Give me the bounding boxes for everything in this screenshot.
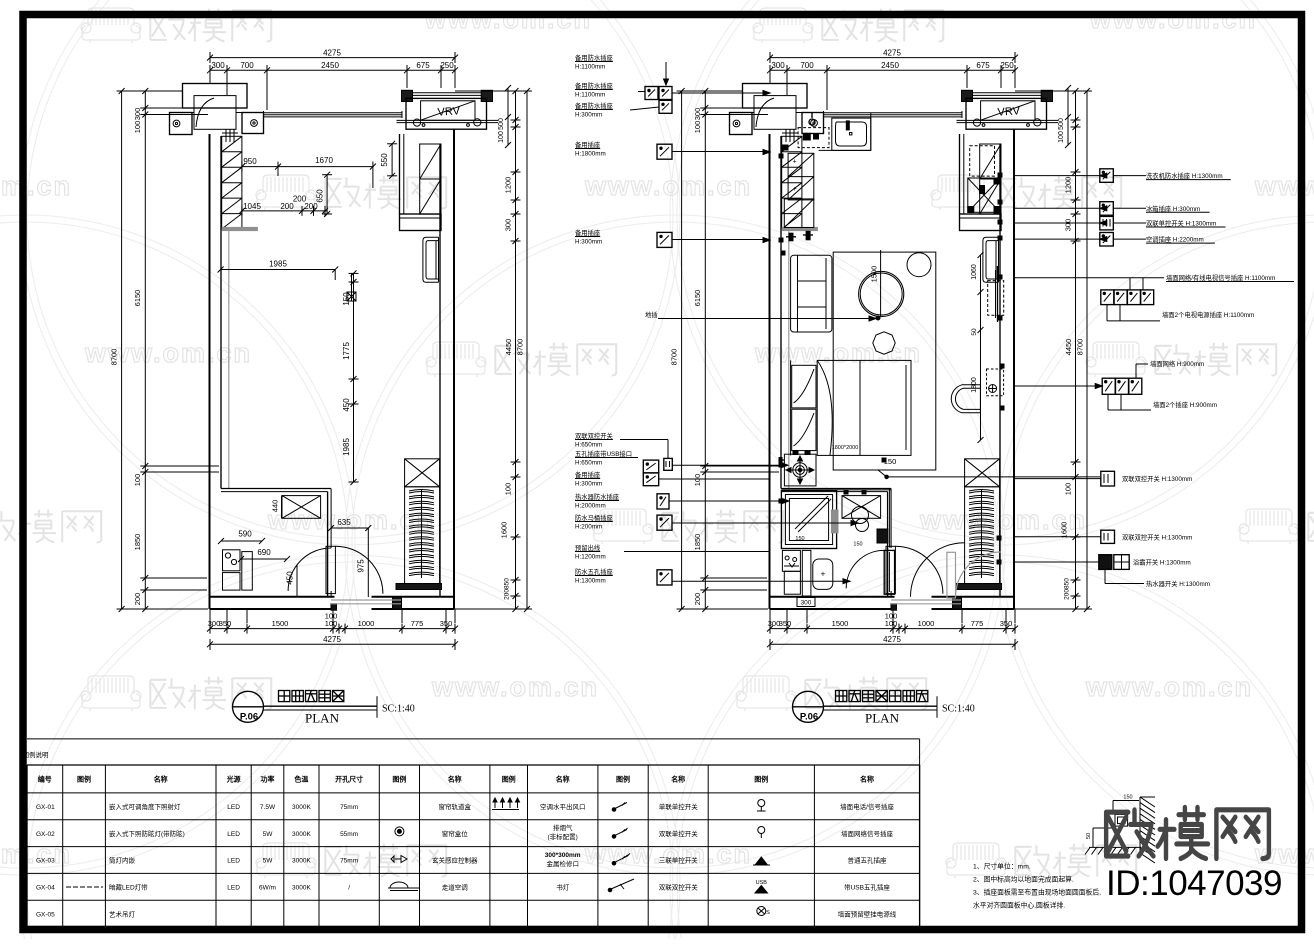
svg-text:+: + bbox=[793, 159, 797, 166]
svg-text:双联单控开关: 双联单控开关 bbox=[659, 829, 699, 838]
svg-text:500: 500 bbox=[498, 118, 505, 130]
svg-text:200: 200 bbox=[293, 195, 307, 204]
svg-text:墙面网络信号插座: 墙面网络信号插座 bbox=[841, 829, 894, 838]
svg-text:光源: 光源 bbox=[226, 775, 241, 784]
svg-text:浴霸开关 H:1300mm: 浴霸开关 H:1300mm bbox=[1133, 558, 1191, 567]
svg-text:玄关感应控制器: 玄关感应控制器 bbox=[432, 856, 478, 865]
svg-text:GX-01: GX-01 bbox=[36, 804, 55, 811]
svg-text:950: 950 bbox=[243, 157, 257, 166]
svg-text:H:200mm: H:200mm bbox=[575, 524, 602, 531]
svg-text:www.om.cn: www.om.cn bbox=[1089, 4, 1257, 34]
svg-text:备用防水插座: 备用防水插座 bbox=[575, 101, 613, 110]
svg-text:/: / bbox=[348, 885, 350, 892]
svg-text:200: 200 bbox=[133, 593, 142, 606]
svg-text:3000K: 3000K bbox=[292, 858, 311, 865]
svg-text:H:300mm: H:300mm bbox=[575, 112, 602, 119]
svg-text:洗衣机防水插座 H:1300mm: 洗衣机防水插座 H:1300mm bbox=[1146, 171, 1223, 180]
svg-text:GX-03: GX-03 bbox=[36, 858, 55, 865]
svg-text:书灯: 书灯 bbox=[556, 883, 570, 892]
svg-text:热水器开关 H:1300mm: 热水器开关 H:1300mm bbox=[1146, 579, 1210, 588]
svg-text:图例: 图例 bbox=[77, 775, 91, 784]
svg-text:55mm: 55mm bbox=[340, 831, 358, 838]
svg-text:50: 50 bbox=[971, 328, 978, 336]
svg-text:空调水平出风口: 空调水平出风口 bbox=[540, 802, 586, 811]
svg-text:开孔尺寸: 开孔尺寸 bbox=[335, 775, 363, 784]
svg-text:LED: LED bbox=[227, 885, 240, 892]
svg-text:1500: 1500 bbox=[272, 619, 289, 628]
svg-text:1800*2000: 1800*2000 bbox=[832, 445, 859, 451]
svg-text:440: 440 bbox=[271, 500, 280, 513]
svg-text:+: + bbox=[821, 570, 826, 579]
svg-text:1200: 1200 bbox=[504, 177, 513, 194]
svg-text:6150: 6150 bbox=[133, 290, 142, 307]
svg-text:1、尺寸单位：mm.: 1、尺寸单位：mm. bbox=[973, 862, 1031, 871]
svg-text:图例: 图例 bbox=[616, 775, 630, 784]
svg-text:带USB五孔插座: 带USB五孔插座 bbox=[844, 883, 890, 892]
svg-text:H:300mm: H:300mm bbox=[575, 239, 602, 246]
svg-text:1670: 1670 bbox=[315, 156, 333, 165]
svg-text:www.om.cn: www.om.cn bbox=[584, 171, 752, 201]
svg-text:图例: 图例 bbox=[502, 775, 516, 784]
svg-text:艺术吊灯: 艺术吊灯 bbox=[109, 909, 136, 918]
svg-text:编号: 编号 bbox=[38, 775, 52, 784]
svg-text:空调插座 H:2200mm: 空调插座 H:2200mm bbox=[1146, 235, 1204, 244]
svg-text:冰箱插座 H:300mm: 冰箱插座 H:300mm bbox=[1146, 204, 1200, 213]
svg-text:H:1300mm: H:1300mm bbox=[575, 578, 606, 585]
svg-text:75mm: 75mm bbox=[340, 804, 358, 811]
svg-text:防水马桶插座: 防水马桶插座 bbox=[575, 513, 613, 522]
svg-text:100: 100 bbox=[498, 131, 505, 143]
svg-text:8700: 8700 bbox=[516, 339, 525, 356]
svg-text:250: 250 bbox=[440, 61, 454, 70]
svg-text:300: 300 bbox=[504, 219, 513, 232]
svg-text:三联单控开关: 三联单控开关 bbox=[659, 856, 699, 865]
svg-text:排烟气: 排烟气 bbox=[553, 823, 573, 832]
svg-text:300: 300 bbox=[211, 61, 225, 70]
svg-text:1850: 1850 bbox=[133, 534, 142, 551]
svg-text:ID:1047039: ID:1047039 bbox=[1106, 864, 1282, 903]
svg-text:975: 975 bbox=[357, 559, 366, 573]
svg-text:备用插座: 备用插座 bbox=[575, 140, 600, 149]
svg-text:H:2000mm: H:2000mm bbox=[575, 503, 606, 510]
svg-text:双联双控开关: 双联双控开关 bbox=[575, 431, 613, 440]
svg-text:色温: 色温 bbox=[294, 775, 308, 784]
svg-text:100: 100 bbox=[133, 474, 142, 487]
svg-text:www.om.cn: www.om.cn bbox=[424, 4, 592, 34]
svg-text:4275: 4275 bbox=[323, 49, 341, 58]
svg-text:双联双控开关 H:1300mm: 双联双控开关 H:1300mm bbox=[1122, 533, 1192, 542]
svg-text:名称: 名称 bbox=[448, 775, 462, 784]
svg-text:墙面2个电视电源插座 H:1100mm: 墙面2个电视电源插座 H:1100mm bbox=[1162, 310, 1254, 319]
svg-text:300*300mm: 300*300mm bbox=[545, 852, 581, 859]
svg-text:GX-02: GX-02 bbox=[36, 831, 55, 838]
svg-text:防水五孔插座: 防水五孔插座 bbox=[575, 567, 613, 576]
svg-text:700: 700 bbox=[240, 61, 254, 70]
svg-text:H:650mm: H:650mm bbox=[575, 460, 602, 467]
svg-text:VRV: VRV bbox=[437, 105, 461, 119]
svg-text:675: 675 bbox=[416, 61, 430, 70]
svg-text:备用防水插座: 备用防水插座 bbox=[575, 81, 613, 90]
svg-text:550: 550 bbox=[380, 153, 389, 167]
svg-text:200850: 200850 bbox=[504, 578, 511, 600]
svg-text:双联单控开关 H:1300mm: 双联单控开关 H:1300mm bbox=[1146, 219, 1216, 228]
svg-text:3000K: 3000K bbox=[292, 831, 311, 838]
svg-text:PLAN: PLAN bbox=[305, 710, 340, 725]
svg-text:150: 150 bbox=[1123, 795, 1132, 801]
svg-text:350: 350 bbox=[219, 619, 232, 628]
svg-text:590: 590 bbox=[238, 530, 252, 539]
svg-text:150: 150 bbox=[795, 536, 804, 542]
svg-text:2450: 2450 bbox=[321, 61, 339, 70]
svg-text:450: 450 bbox=[342, 398, 351, 412]
svg-text:100: 100 bbox=[325, 619, 338, 628]
svg-text:690: 690 bbox=[257, 548, 271, 557]
svg-text:H:1200mm: H:1200mm bbox=[575, 554, 606, 561]
svg-text:GX-05: GX-05 bbox=[36, 911, 55, 918]
svg-text:名称: 名称 bbox=[154, 775, 168, 784]
svg-text:名称: 名称 bbox=[860, 775, 874, 784]
svg-text:775: 775 bbox=[411, 619, 424, 628]
svg-text:1045: 1045 bbox=[243, 202, 261, 211]
svg-text:单联单控开关: 单联单控开关 bbox=[659, 802, 699, 811]
svg-text:双联双控开关 H:1300mm: 双联双控开关 H:1300mm bbox=[1122, 474, 1192, 483]
svg-text:功率: 功率 bbox=[261, 775, 275, 784]
svg-text:3、插座面板需至布置由现场地面圆面板后,: 3、插座面板需至布置由现场地面圆面板后, bbox=[973, 888, 1101, 897]
svg-text:水平对齐圆面板中心,圆板详排.: 水平对齐圆面板中心,圆板详排. bbox=[973, 901, 1065, 910]
svg-text:备用插座: 备用插座 bbox=[575, 470, 600, 479]
svg-text:嵌入式可调角度下照射灯: 嵌入式可调角度下照射灯 bbox=[109, 802, 181, 811]
svg-text:S: S bbox=[766, 910, 770, 916]
svg-text:100: 100 bbox=[504, 483, 513, 496]
svg-text:3000K: 3000K bbox=[292, 804, 311, 811]
svg-text:H:1800mm: H:1800mm bbox=[575, 151, 606, 158]
svg-text:www.om.cn: www.om.cn bbox=[1085, 672, 1253, 702]
svg-text:75mm: 75mm bbox=[340, 858, 358, 865]
svg-text:地插: 地插 bbox=[645, 310, 658, 319]
svg-text:墙面预留壁挂电源线: 墙面预留壁挂电源线 bbox=[838, 909, 897, 918]
svg-text:墙面网络 H:900mm: 墙面网络 H:900mm bbox=[1150, 359, 1204, 368]
svg-text:3000K: 3000K bbox=[292, 885, 311, 892]
svg-text:筒灯内嵌: 筒灯内嵌 bbox=[109, 856, 136, 865]
svg-text:PLAN: PLAN bbox=[865, 710, 900, 725]
svg-text:50: 50 bbox=[1086, 833, 1092, 839]
svg-text:www.om.cn: www.om.cn bbox=[754, 338, 922, 368]
svg-text:窗帘盒位: 窗帘盒位 bbox=[442, 829, 469, 838]
svg-text:LED: LED bbox=[227, 831, 240, 838]
svg-text:暗藏LED灯带: 暗藏LED灯带 bbox=[109, 883, 148, 892]
svg-text:H:1100mm: H:1100mm bbox=[575, 64, 605, 71]
svg-text:墙面网络/有线电视信号插座 H:1100mm: 墙面网络/有线电视信号插座 H:1100mm bbox=[1166, 273, 1275, 282]
svg-text:SC:1:40: SC:1:40 bbox=[942, 703, 975, 714]
svg-text:1985: 1985 bbox=[269, 260, 287, 269]
svg-text:走道空调: 走道空调 bbox=[442, 883, 468, 892]
svg-text:P.06: P.06 bbox=[240, 711, 258, 722]
svg-text:SC:1:40: SC:1:40 bbox=[382, 703, 415, 714]
svg-text:普通五孔插座: 普通五孔插座 bbox=[848, 856, 888, 865]
svg-text:名称: 名称 bbox=[556, 775, 570, 784]
svg-text:150: 150 bbox=[853, 542, 862, 548]
svg-text:+: + bbox=[793, 186, 797, 193]
svg-text:www.om.cn: www.om.cn bbox=[0, 171, 72, 201]
svg-text:窗帘轨道盒: 窗帘轨道盒 bbox=[438, 802, 471, 811]
svg-text:1060: 1060 bbox=[971, 264, 978, 280]
svg-text:墙面电话/信号插座: 墙面电话/信号插座 bbox=[840, 802, 894, 811]
svg-text:热水器防水插座: 热水器防水插座 bbox=[575, 492, 619, 501]
svg-text:1600: 1600 bbox=[500, 522, 509, 539]
svg-text:嵌入式下照防眩灯(带防眩): 嵌入式下照防眩灯(带防眩) bbox=[109, 829, 185, 838]
svg-text:4275: 4275 bbox=[323, 635, 341, 644]
svg-text:300: 300 bbox=[133, 108, 142, 121]
svg-text:双联双控开关: 双联双控开关 bbox=[659, 883, 699, 892]
svg-text:备用防水插座: 备用防水插座 bbox=[575, 53, 613, 62]
svg-text:4450: 4450 bbox=[504, 339, 513, 356]
svg-text:预留出线: 预留出线 bbox=[575, 543, 601, 552]
svg-text:图例: 图例 bbox=[392, 775, 406, 784]
svg-text:LED: LED bbox=[227, 804, 240, 811]
svg-text:1985: 1985 bbox=[342, 438, 351, 456]
svg-text:1775: 1775 bbox=[342, 342, 351, 360]
svg-text:名称: 名称 bbox=[671, 775, 685, 784]
svg-text:P.06: P.06 bbox=[800, 711, 818, 722]
svg-text:H:300mm: H:300mm bbox=[575, 481, 602, 488]
svg-text:备用插座: 备用插座 bbox=[575, 228, 600, 237]
svg-text:8700: 8700 bbox=[110, 349, 119, 366]
svg-text:1500: 1500 bbox=[870, 266, 879, 283]
svg-text:300: 300 bbox=[801, 600, 812, 607]
svg-text:650: 650 bbox=[316, 189, 325, 203]
svg-text:H:650mm: H:650mm bbox=[575, 442, 602, 449]
svg-text:墙面2个插座 H:900mm: 墙面2个插座 H:900mm bbox=[1153, 400, 1217, 409]
svg-text:5W: 5W bbox=[263, 831, 274, 838]
svg-text:图例: 图例 bbox=[754, 775, 768, 784]
svg-text:www.om.cn: www.om.cn bbox=[431, 672, 599, 702]
svg-text:LED: LED bbox=[227, 858, 240, 865]
svg-text:五孔插座带USB接口: 五孔插座带USB接口 bbox=[575, 449, 632, 458]
svg-text:7.5W: 7.5W bbox=[260, 804, 276, 811]
svg-text:金属检修口: 金属检修口 bbox=[546, 859, 579, 868]
svg-text:200: 200 bbox=[304, 202, 318, 211]
svg-text:1000: 1000 bbox=[358, 619, 375, 628]
svg-text:635: 635 bbox=[337, 518, 351, 527]
svg-text:6W/m: 6W/m bbox=[259, 885, 276, 892]
svg-text:5W: 5W bbox=[263, 858, 274, 865]
svg-text:2、图中标高均以地面完成面起算.: 2、图中标高均以地面完成面起算. bbox=[973, 875, 1074, 884]
svg-text:H:1100mm: H:1100mm bbox=[575, 92, 605, 99]
svg-text:GX-04: GX-04 bbox=[36, 885, 55, 892]
svg-text:(非标配置): (非标配置) bbox=[548, 832, 578, 841]
svg-text:100: 100 bbox=[133, 121, 142, 134]
